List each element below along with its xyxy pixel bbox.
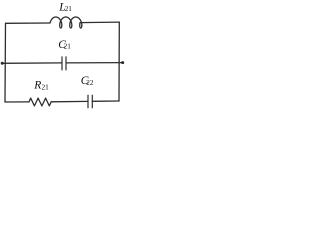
node terminal dot left xyxy=(1,62,4,65)
wire right rail xyxy=(118,22,120,101)
wire C22 to corner xyxy=(92,100,119,102)
svg-text:21: 21 xyxy=(64,43,72,51)
svg-text:R: R xyxy=(33,80,41,92)
resistor R21 xyxy=(29,98,51,106)
inductor L21 xyxy=(50,17,82,28)
svg-text:21: 21 xyxy=(65,5,73,13)
wire resistor to C22 xyxy=(51,100,88,102)
wire top edge left (corner to L21) xyxy=(6,22,51,24)
svg-text:22: 22 xyxy=(86,79,94,87)
wire top edge right (L21 to corner) xyxy=(80,21,119,24)
capacitor C22 plate right xyxy=(91,95,93,108)
wire middle branch left xyxy=(2,62,62,64)
capacitor C22 plate left xyxy=(87,95,89,108)
wire left rail xyxy=(4,23,7,102)
svg-text:21: 21 xyxy=(42,84,50,92)
capacitor C21 plate left xyxy=(61,57,63,70)
node terminal dot right xyxy=(121,61,124,64)
capacitor C21 plate right xyxy=(65,57,67,70)
wire middle branch right xyxy=(66,62,123,64)
wire bottom edge xyxy=(5,101,29,103)
